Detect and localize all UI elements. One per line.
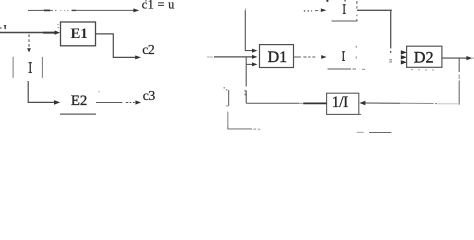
svg-text:c1 = u: c1 = u: [142, 0, 175, 12]
speck left of E1: [57, 24, 58, 25]
wire: dashed drop from main line to I: [28, 34, 30, 47]
arrowhead into top I: [321, 8, 327, 12]
dots under D2: [411, 69, 433, 71]
wire: main input line to E1: [0, 32, 55, 34]
wire: right diagram main input: [207, 56, 213, 58]
arrowhead c2: [135, 55, 141, 59]
block 1/I: [327, 93, 359, 114]
block I middle (partial: bottom edge and right edge fragments): [328, 46, 366, 69]
arrowhead into 1/I right side: [359, 101, 365, 105]
wire: E1 output to c2: [96, 34, 136, 58]
wire: dotted arrow into top I: [304, 10, 313, 12]
left bar of block I: [13, 57, 14, 78]
svg-text:D2: D2: [414, 49, 434, 67]
block D2: [407, 46, 442, 67]
wire: vertical down to E2: [28, 81, 54, 102]
label I middle: [342, 51, 345, 52]
svg-text:1/I: 1/I: [332, 94, 348, 111]
L bracket bottom left of right diagram: [223, 87, 260, 129]
arrowhead into D1 middle: [252, 55, 257, 59]
input label u (tiny glyph at left edge): [0, 25, 6, 29]
svg-text:c3: c3: [143, 88, 156, 103]
wire: lower vertical to feedback row: [245, 57, 247, 87]
arrowhead into D1 top: [252, 49, 257, 53]
block D1: [260, 45, 294, 68]
arrowhead into E2: [54, 100, 60, 105]
wire: 1/I output to left vertical: [246, 102, 299, 104]
svg-text:E1: E1: [71, 26, 88, 42]
wire: top I output across and down to D2: [357, 9, 392, 11]
underline of E2: [60, 113, 96, 115]
wire: hook into D1 bottom: [246, 63, 253, 65]
dotted arrows into D2: [401, 50, 407, 64]
block E1: [61, 22, 96, 46]
wire: D2 output to right edge: [442, 57, 468, 59]
block I top (partial: bottom edge, dashed right edge, corner mark): [326, 0, 357, 21]
svg-text:E2: E2: [71, 93, 87, 109]
wire: feedback vertical drop: [458, 59, 460, 73]
arrowhead down into I: [27, 48, 31, 52]
wire: feedback horizontal into 1/I: [365, 102, 400, 104]
label I: [29, 62, 32, 63]
wire: upper branch into D1: [245, 8, 246, 11]
svg-text:D1: D1: [268, 49, 288, 66]
arrowhead after D1 output: [321, 55, 326, 59]
arrowhead into D1 bottom: [252, 62, 257, 66]
right bar of block I: [42, 57, 43, 78]
bottom dashes: [357, 131, 364, 133]
wire: dashed line to c1: [28, 10, 135, 11]
arrowhead c1: [133, 8, 139, 12]
wire: E2 to c3 (dash-dot): [96, 102, 135, 104]
wire: D1 output dash-dot: [294, 56, 316, 58]
arrowhead c3: [135, 100, 141, 104]
label I top: [343, 4, 346, 5]
arrowhead into E1: [55, 31, 61, 35]
svg-text:c2: c2: [142, 42, 155, 57]
